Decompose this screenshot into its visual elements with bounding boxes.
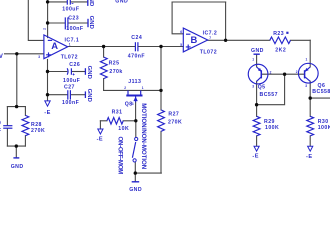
svg-text:270k: 270k (109, 69, 122, 75)
svg-text:MOTION/NON-MOTION: MOTION/NON-MOTION (140, 103, 147, 170)
svg-text:C27: C27 (64, 84, 75, 90)
svg-text:R25: R25 (109, 60, 120, 66)
svg-text:F: F (0, 128, 1, 134)
svg-text:1: 1 (306, 58, 308, 62)
svg-text:100nF: 100nF (62, 100, 79, 106)
svg-text:3: 3 (252, 85, 254, 89)
svg-text:100K: 100K (265, 125, 279, 131)
svg-text:7: 7 (209, 36, 211, 40)
svg-text:A: A (51, 40, 58, 51)
svg-text:2: 2 (296, 70, 298, 74)
svg-text:1: 1 (69, 42, 71, 46)
svg-text:C23: C23 (68, 16, 79, 22)
svg-text:270K: 270K (168, 119, 182, 125)
svg-text:270K: 270K (31, 128, 45, 134)
svg-text:100K: 100K (318, 125, 330, 131)
svg-text:TL072: TL072 (200, 50, 217, 56)
svg-text:100uF: 100uF (62, 6, 79, 12)
svg-text:GND: GND (88, 0, 94, 6)
svg-text:IC7.1: IC7.1 (65, 37, 80, 43)
svg-text:GND: GND (251, 48, 264, 54)
svg-text:B: B (191, 34, 198, 45)
svg-text:3: 3 (305, 84, 307, 88)
svg-text:3: 3 (132, 102, 134, 106)
svg-text:Q5: Q5 (258, 84, 266, 90)
svg-text:6: 6 (180, 30, 182, 34)
svg-text:C24: C24 (131, 35, 142, 41)
svg-text:470nF: 470nF (128, 53, 145, 59)
svg-text:R27: R27 (168, 111, 179, 117)
svg-text:BC558: BC558 (312, 89, 330, 95)
svg-text:-E: -E (44, 110, 51, 116)
svg-text:J113: J113 (128, 79, 141, 85)
svg-text:5: 5 (180, 43, 182, 47)
svg-text:2: 2 (270, 71, 272, 75)
svg-text:R23: R23 (273, 31, 284, 37)
svg-text:100nF: 100nF (66, 26, 83, 32)
svg-text:BC557: BC557 (260, 92, 278, 98)
svg-text:3: 3 (38, 55, 40, 59)
svg-text:ON-OFF-MOM: ON-OFF-MOM (117, 137, 124, 175)
svg-text:2: 2 (42, 28, 46, 30)
svg-text:GND: GND (86, 89, 92, 102)
svg-text:GND: GND (88, 16, 94, 29)
svg-text:1: 1 (142, 86, 144, 90)
svg-text:R31: R31 (112, 110, 123, 116)
svg-text:V: V (0, 54, 3, 60)
svg-text:0: 0 (0, 120, 1, 126)
svg-text:2: 2 (124, 86, 126, 90)
svg-text:GND: GND (129, 187, 142, 192)
svg-text:GND: GND (115, 0, 128, 5)
svg-text:1: 1 (252, 58, 254, 62)
svg-text:-E: -E (252, 154, 259, 160)
svg-text:-E: -E (306, 154, 313, 160)
svg-text:GND: GND (11, 164, 24, 170)
svg-text:-E: -E (97, 137, 104, 143)
svg-text:2K2: 2K2 (275, 48, 286, 54)
svg-text:C26: C26 (69, 62, 80, 68)
svg-text:GND: GND (86, 66, 92, 79)
svg-text:TL072: TL072 (61, 55, 78, 61)
svg-text:100uF: 100uF (63, 78, 80, 84)
svg-text:10K: 10K (118, 126, 129, 132)
